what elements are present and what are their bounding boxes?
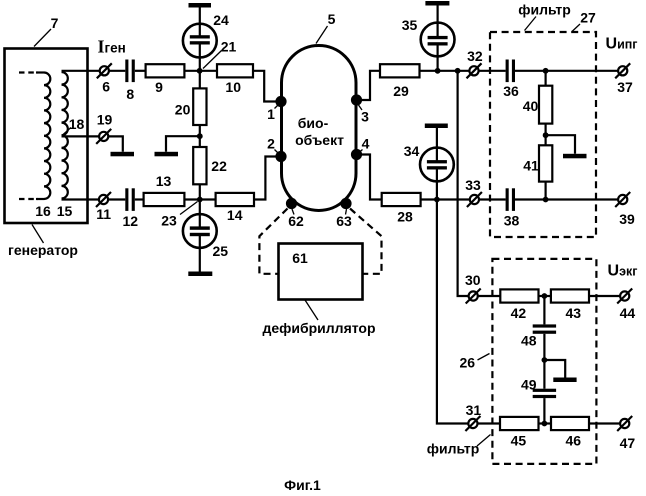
leader tick for дефибриллятор [305,300,318,320]
svg-text:2: 2 [267,136,275,152]
svg-text:32: 32 [467,48,483,64]
svg-text:42: 42 [511,305,527,321]
node under electrode 35 [435,68,441,74]
ground under node [155,152,179,157]
wire terminal 31 to resistor 45 [478,422,501,424]
capacitor 36 [506,60,509,83]
wire capacitor 8 to resistor 9 [135,70,146,72]
leader tick for 26 [478,354,490,361]
pin 62 [286,198,297,209]
svg-text:1: 1 [267,106,275,122]
svg-text:5: 5 [328,11,336,27]
svg-text:21: 21 [221,39,237,55]
terminal 30 [469,291,478,300]
svg-text:61: 61 [292,250,308,266]
svg-text:25: 25 [213,243,229,259]
leader tick for генератор [32,225,44,244]
svg-text:дефибриллятор: дефибриллятор [262,320,375,336]
filter box 26 [492,259,596,464]
wire resistor 14 to pin 2 [254,157,276,200]
svg-text:3: 3 [361,109,369,125]
wire pin 3 to resistor 29 [360,71,380,100]
wire terminal 30 to resistor 42 [478,295,501,297]
resistor 28 [382,193,421,206]
leader tick for 18 (center tap) [63,128,72,136]
electrode 35 [421,23,455,57]
wire top into winding 16 [36,71,44,73]
wire terminal 33 to capacitor 38 [479,198,506,200]
dashed wire pin 63 to defibrillator [350,209,382,274]
svg-text:Uэкг: Uэкг [608,263,638,280]
svg-text:7: 7 [51,15,59,31]
leader tick фильтр bottom [477,435,491,447]
ground above electrode 35 [425,1,449,6]
electrode 25 [183,214,217,248]
transformer winding 16 [44,73,50,199]
wire resistor 20 to resistor 22 [199,125,201,147]
capacitor 8 [125,60,128,83]
pin 3 [351,94,362,105]
resistor 41 [539,145,552,181]
generator box 7 [5,49,88,224]
terminal 31 [468,419,477,428]
wire electrode 35 to row A [437,45,439,71]
node of vertical to terminal 30 [455,68,461,74]
wire terminal 6 to capacitor 8 [109,70,125,72]
wire node 21 to resistor 20 [199,71,201,89]
capacitor 49 [533,389,556,392]
terminal 47 [620,419,629,428]
resistor 43 [551,289,589,302]
svg-text:20: 20 [175,102,191,118]
resistor 40 [539,86,552,124]
capacitor 48 [533,324,556,327]
wire electrode 25 to ground [199,236,201,272]
bio-object 5 [282,46,357,211]
defibrillator box 61 [279,244,363,300]
svg-text:37: 37 [617,79,633,95]
wire capacitor 49 to row E [543,398,545,423]
wire terminal 19 to ground [108,136,123,151]
node between 42 and 43 [542,293,548,299]
svg-text:4: 4 [362,136,370,152]
wire capacitor 48 to node [543,334,545,389]
wire terminal 11 to capacitor 12 [108,198,125,200]
wire resistor 22 to node 23 [199,184,201,199]
capacitor 12 [125,188,128,211]
wire node 23 to electrode 25 [199,200,201,227]
leader tick фильтр top [525,17,537,31]
wire 45 to 46 [539,422,552,424]
leader tick for 7 [34,29,51,47]
pin 1 [275,96,286,107]
resistor 46 [551,417,589,430]
node below resistor 41 [543,197,549,203]
wire vertical node 33 row to terminal 31 [437,200,468,424]
svg-text:34: 34 [404,143,420,159]
wire row B winding 15 tap to terminal 19 [62,135,100,137]
svg-text:9: 9 [155,79,163,95]
dashed wire pin 62 to defibrillator [259,209,287,274]
wire resistor 41 to row C [544,182,546,200]
svg-text:44: 44 [620,305,636,321]
svg-text:29: 29 [393,83,409,99]
wire dashed stub bottom-left of winding 16 [19,198,38,200]
node above resistor 40 [543,68,549,74]
svg-text:30: 30 [465,272,481,288]
svg-text:24: 24 [213,12,229,28]
wire node to resistor 40 [544,71,546,86]
svg-text:38: 38 [504,213,520,229]
ground above electrode 24 [189,3,212,8]
svg-text:23: 23 [161,213,177,229]
wire capacitor 12 to resistor 13 [135,198,144,200]
svg-text:40: 40 [523,98,539,114]
pin 63 [340,198,351,209]
electrode 24 [183,24,217,58]
wire 42 to 43 [539,295,551,297]
leader tick for 23 [180,202,198,215]
capacitor 38 [506,188,509,211]
node between 48 and 49 [542,357,548,363]
wire pin 4 to resistor 28 [360,155,382,200]
wire terminal 32 to capacitor 36 [479,70,506,72]
leader tick for 21 [203,51,222,69]
resistor 20 [193,88,206,125]
terminal 6 [100,66,109,75]
wire resistor 9 to resistor 10 [184,70,217,72]
svg-text:62: 62 [288,213,304,229]
wire node to ground arm [544,360,565,378]
svg-text:15: 15 [57,203,73,219]
svg-text:19: 19 [97,112,113,128]
svg-text:6: 6 [102,79,110,95]
svg-text:45: 45 [511,433,527,449]
wire dashed stub top-left of winding 16 [19,71,38,73]
terminal 39 [618,195,627,204]
wire resistor 28 to terminal 33 [421,198,470,200]
resistor 13 [144,193,185,206]
wire electrode 24 to node 21 [199,44,201,71]
svg-text:13: 13 [156,173,172,189]
wire resistor 13 to resistor 14 [184,198,215,200]
resistor 42 [500,289,538,302]
svg-text:14: 14 [227,207,243,223]
svg-text:39: 39 [619,211,635,227]
wire resistor 46 to terminal 47 [589,422,620,424]
wire row A from winding 15 to terminal 6 [62,70,100,72]
svg-text:16: 16 [35,203,51,219]
wire vertical row A to terminal 30 [458,71,469,296]
pin 4 [351,149,362,160]
wire bottom of winding 16 [36,198,44,200]
svg-text:фильтр: фильтр [427,441,480,457]
wire resistor 10 to pin 1 [253,71,276,102]
ground in filter 27 [563,154,587,159]
filter box 27 [490,32,596,237]
svg-text:био-: био- [298,115,329,131]
terminal 33 [470,195,479,204]
leader tick for 27 [572,24,580,32]
terminal 11 [99,195,108,204]
resistor 22 [193,147,206,184]
wire resistor 43 to terminal 44 [589,295,620,297]
svg-text:28: 28 [397,209,413,225]
node 21 junction [197,68,203,74]
ground of terminal 19 [111,152,135,157]
svg-text:43: 43 [566,305,582,321]
svg-text:генератор: генератор [8,242,78,258]
wire node to ground arm [166,136,200,152]
terminal 37 [618,66,627,75]
svg-text:12: 12 [123,213,139,229]
svg-text:26: 26 [460,355,476,371]
svg-text:Iген: Iген [98,37,126,57]
svg-text:36: 36 [503,83,519,99]
leader tick for 5 [316,26,328,44]
resistor 14 [216,193,254,206]
resistor 9 [146,64,185,77]
wire resistor 29 to terminal 32 [420,70,470,72]
svg-text:18: 18 [69,116,85,132]
wire ground to electrode 35 [437,6,439,37]
wire ground to electrode 24 [199,8,201,36]
wire resistor 40 to resistor 41 [544,124,546,146]
wire node 42/43 to capacitor 48 [543,296,545,324]
node between 40 and 41 [543,132,549,138]
terminal 32 [469,66,478,75]
resistor 10 [217,64,253,77]
svg-text:10: 10 [225,79,241,95]
ground above electrode 34 [425,124,448,129]
svg-text:31: 31 [466,402,482,418]
svg-text:63: 63 [336,213,352,229]
wire capacitor 38 to terminal 39 [515,198,618,200]
svg-text:48: 48 [521,333,537,349]
wire electrode 34 to row C [436,169,438,200]
node between 20 and 22 [197,133,203,139]
wire capacitor 36 to terminal 37 [515,70,618,72]
svg-text:Uипг: Uипг [606,36,638,53]
wire row C winding 15 to terminal 11 [62,198,100,200]
svg-text:35: 35 [402,17,418,33]
pin 2 [275,151,286,162]
svg-text:41: 41 [523,158,539,174]
ground under electrode 25 [188,272,212,277]
svg-text:46: 46 [566,433,582,449]
svg-text:Фиг.1: Фиг.1 [284,477,321,493]
terminal 19 [99,132,108,141]
svg-text:33: 33 [465,177,481,193]
resistor 29 [380,64,420,77]
transformer winding 15 [62,72,68,198]
ground in filter 26 [553,378,576,383]
wire node to ground arm [546,135,575,154]
svg-text:22: 22 [211,158,227,174]
wire ground to electrode 34 [436,128,438,161]
svg-text:27: 27 [580,10,596,26]
svg-text:объект: объект [295,132,344,148]
node 23 junction [197,197,203,203]
svg-text:47: 47 [620,435,636,451]
electrode 34 [420,148,454,182]
svg-text:фильтр: фильтр [518,2,571,18]
resistor 45 [500,417,539,430]
node between 45 and 46 [542,421,548,427]
svg-text:11: 11 [96,206,111,222]
terminal 44 [620,291,629,300]
node under electrode 34 [434,197,440,203]
svg-text:8: 8 [126,86,134,102]
